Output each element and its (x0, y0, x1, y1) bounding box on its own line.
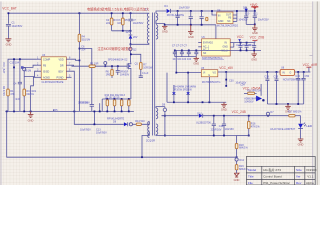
cap E11 (253, 11, 259, 24)
junction top rail x130.5 (130, 12, 132, 14)
svg-text:20V: 20V (133, 36, 138, 39)
svg-text:MC78L05ACDR2G: MC78L05ACDR2G (217, 25, 238, 28)
U5 out stub (218, 71, 226, 73)
wire R19 down (236, 170, 238, 173)
junction out rail x248.75 (248, 115, 250, 117)
sense resistor R10 (106, 100, 109, 112)
svg-text:0R75/1%: 0R75/1% (78, 101, 89, 104)
svg-text:VCC_ZXB: VCC_ZXB (250, 35, 265, 39)
main gnd bus (5, 110, 134, 112)
svg-text:R14 510: R14 510 (135, 120, 145, 123)
svg-text:O: O (289, 71, 291, 74)
wire R18 to rail (236, 149, 238, 158)
transformer primary winding (147, 13, 149, 43)
svg-text:GND: GND (298, 143, 304, 147)
svg-text:GND: GND (162, 30, 168, 34)
U6 right stubs (230, 43, 234, 48)
wire bus to aux row x94.4 (93, 111, 95, 124)
mosfet Q1 (127, 62, 138, 69)
gate inline resistor R5b (89, 63, 99, 68)
ground below C1 (5, 39, 11, 42)
junction x164.9 y115.7 (164, 115, 166, 117)
junction rail x246.2 (245, 10, 247, 12)
sense resistor R11 (113, 100, 116, 112)
snubber resistor R2 (106, 13, 117, 31)
ground cap bank (194, 57, 200, 62)
resistor R19 (235, 165, 248, 171)
svg-text:GND: GND (218, 20, 224, 23)
svg-text:104: 104 (248, 44, 253, 47)
junction snubber bottom x122.8 (122, 30, 124, 32)
bottom return rail (165, 135, 237, 137)
svg-text:FB: FB (43, 64, 46, 67)
svg-text:VCC_x5V0A: VCC_x5V0A (243, 86, 262, 90)
cap col x303.7 (302, 72, 306, 104)
svg-text:CL6870GD078GPE: CL6870GD078GPE (42, 81, 64, 84)
svg-text:R2 47K5: R2 47K5 (2, 86, 5, 96)
svg-text:68K/1%: 68K/1% (239, 147, 249, 150)
wire sec low2 bottom pin (156, 134, 165, 137)
svg-text:0R/1%: 0R/1% (26, 93, 34, 96)
cap between rails x240.5 (239, 43, 243, 51)
sheet right margin (313, 0, 320, 185)
svg-text:10uF/50V: 10uF/50V (12, 25, 23, 28)
cap col x298.2 (296, 72, 300, 104)
regulator U6 (202, 39, 231, 56)
svg-text:电解换成0欧电阻,1.5左右,电解可以适当加大: 电解换成0欧电阻,1.5左右,电解可以适当加大 (87, 7, 150, 12)
svg-text:VO: VO (213, 71, 217, 74)
svg-text:GND: GND (6, 42, 12, 46)
wire circle to R19 (236, 161, 238, 165)
circle D9 (162, 103, 167, 135)
wire small x99.7 (99, 103, 101, 111)
svg-text:104/50V: 104/50V (244, 100, 254, 103)
cap C42 (219, 116, 234, 136)
wire aux bottom pin (142, 132, 149, 158)
sense resistor R12 (120, 100, 123, 112)
resistor R16 (247, 116, 260, 136)
svg-text:E11: E11 (253, 12, 258, 15)
svg-text:VCC_x5V: VCC_x5V (219, 66, 234, 70)
svg-text:2CQ/3R: 2CQ/3R (146, 139, 155, 142)
junction mid rail x201.6 (201, 24, 203, 26)
junction rail x190.75 (190, 10, 192, 12)
divider column top (236, 136, 238, 144)
diode D8 (124, 122, 128, 126)
svg-text:R21: R21 (32, 90, 37, 93)
return rail ext (237, 135, 249, 137)
diode small1 (172, 85, 175, 102)
svg-text:10uF/35V: 10uF/35V (179, 6, 190, 9)
U6 pin names (203, 41, 228, 54)
test point circle gate (104, 62, 107, 68)
ferrite U8 (280, 69, 295, 75)
wire BDY down to bus (72, 71, 75, 111)
svg-text:C19: C19 (274, 75, 279, 78)
ground below rail x254.2 (251, 50, 257, 57)
ground at tap (162, 26, 167, 29)
svg-text:104/16V: 104/16V (225, 128, 235, 131)
junction U4 out top rail (236, 10, 238, 12)
svg-text:0.1uF: 0.1uF (142, 72, 149, 75)
junction mid rail x190.75 (190, 24, 192, 26)
svg-text:VCC_dVR: VCC_dVR (303, 63, 318, 67)
wire sec low1 pin (156, 107, 165, 108)
wire gate rail (72, 65, 90, 67)
transformer sec winding low1 (156, 108, 158, 119)
wire startup branch x79.4 (78, 13, 80, 34)
secondary top rail (170, 10, 254, 12)
aux rect row wire (74, 111, 124, 124)
snubber resistor R3 (117, 13, 128, 31)
cap E8 (176, 6, 190, 24)
U6 part number underlined (202, 57, 224, 60)
diode small2 (186, 92, 189, 94)
U6 left stubs (198, 43, 201, 47)
capacitor C7 (128, 13, 143, 34)
junction gate x112 (111, 65, 113, 67)
svg-text:10uF/50V: 10uF/50V (133, 22, 144, 25)
resistor small x206.8 (206, 17, 208, 20)
U3 pin names (43, 58, 64, 79)
svg-text:C40: C40 (295, 75, 300, 78)
junction top rail at x8.4 (8, 12, 10, 14)
junction return x213.8 (213, 135, 215, 137)
U8 inner pins (282, 71, 291, 74)
bottom long rail (7, 111, 237, 157)
op-amp U3 box (41, 57, 66, 80)
svg-text:1R0: 1R0 (106, 74, 111, 77)
power tick x254.9 (252, 41, 257, 43)
junction return x248.75 (248, 135, 250, 137)
junction out rail x224 (223, 115, 225, 117)
wire COMP left (8, 59, 36, 89)
U3 left pin stubs (36, 59, 41, 77)
resistor horizontal op-amp (244, 89, 262, 94)
title block outer (246, 157, 315, 186)
svg-text:VCC_BAT: VCC_BAT (2, 62, 5, 74)
junctions lower rail (240, 50, 242, 52)
resistor left R1 (7, 89, 15, 111)
svg-text:3n9: 3n9 (15, 98, 20, 101)
diode small near U6 (237, 35, 244, 43)
svg-text:MC78M05CDTG: MC78M05CDTG (202, 81, 221, 84)
wire y115.7 left stub (162, 115, 165, 117)
svg-text:IN: IN (282, 71, 285, 74)
svg-text:VCC_24B: VCC_24B (232, 110, 246, 114)
gate capacitor (116, 66, 130, 76)
wire x176.25 down to bus2 (166, 73, 168, 103)
cap col x267.4 (265, 72, 269, 104)
svg-text:UA-D741FE-AR6P53T: UA-D741FE-AR6P53T (270, 128, 296, 131)
junctions on bus (6, 111, 8, 113)
junction rail x177.6 (177, 10, 179, 12)
svg-text:22uF/16V: 22uF/16V (211, 128, 222, 131)
svg-text:GND: GND (251, 57, 257, 61)
svg-text:GND: GND (193, 61, 199, 65)
svg-text:Alpha: Alpha (306, 181, 314, 185)
svg-text:SPD04N60S4-G2: SPD04N60S4-G2 (108, 58, 128, 61)
cap E10 (244, 11, 250, 24)
svg-text:C? C? C? C?: C? C? C? C? (172, 44, 187, 47)
svg-text:RFVKL642RTE: RFVKL642RTE (167, 14, 185, 17)
junction top rail x111.6 (111, 12, 113, 14)
resistor R14 (135, 120, 145, 126)
svg-text:R17 680/1%: R17 680/1% (288, 111, 303, 114)
junction rail x298.2 (297, 71, 299, 73)
svg-text:E10: E10 (245, 12, 250, 15)
wire y48.5 to cap column (79, 49, 91, 105)
wire to transformer primary bottom (131, 43, 150, 45)
svg-text:10uF/25V: 10uF/25V (258, 19, 269, 22)
svg-text:GND: GND (188, 35, 194, 39)
capacitor left small (13, 82, 22, 111)
wire cap bottoms (246, 23, 255, 25)
junction out rail x213.8 (213, 115, 215, 117)
top light strip (0, 0, 320, 1)
wire x14 drop (13, 59, 15, 111)
cap below rail x196.25 (194, 50, 198, 56)
junction bus x94.4 top (94, 111, 96, 113)
svg-text:VCC_BAT: VCC_BAT (2, 7, 17, 11)
secondary mid rail (165, 24, 216, 26)
transformer sec winding top (156, 13, 158, 20)
wire U4 in (212, 11, 217, 15)
wire VCC_BAT stem (7, 13, 9, 24)
svg-text:1R 1R 1R 1R: 1R 1R 1R 1R (105, 97, 120, 100)
junction bottom rail end (236, 156, 238, 158)
junction x79.4 on top rail (79, 12, 81, 14)
resistor left R9 (23, 77, 35, 113)
svg-text:NF: NF (203, 52, 207, 55)
rail right of U8 (295, 71, 311, 73)
ground below caps (252, 24, 258, 31)
zener D3 (129, 35, 138, 44)
svg-text:Model: Model (248, 168, 257, 172)
bus tick x53.4 (52, 110, 54, 112)
svg-text:V1930X: V1930X (306, 168, 317, 172)
svg-text:VDD: VDD (59, 58, 64, 61)
junction x212 top rail (211, 10, 213, 12)
circle comp aux (129, 123, 136, 126)
output rail after D10 (203, 115, 289, 117)
svg-text:104/50V: 104/50V (238, 19, 248, 22)
capacitor C1 (6, 22, 23, 39)
cap C8 (189, 11, 193, 25)
svg-text:22V: 22V (126, 31, 131, 34)
wire FB (24, 65, 36, 67)
sheet border right (312, 0, 314, 185)
junction top rail x122.8 (122, 12, 124, 14)
regulator U4 (217, 12, 233, 24)
wire top rail (8, 12, 148, 14)
sense resistor top rail (102, 98, 131, 100)
svg-text:C42: C42 (219, 125, 224, 128)
junction gate x117.75 (117, 65, 119, 67)
svg-text:NCV8705MTADJT: NCV8705MTADJT (283, 79, 304, 82)
svg-text:LED: LED (306, 124, 313, 128)
wire DR to gate rail (72, 65, 74, 66)
regulator U5 (201, 70, 218, 77)
5V rail to right (226, 71, 280, 73)
junction U5 out (225, 71, 227, 73)
svg-text:Rev: Rev (296, 181, 302, 185)
svg-text:104 104 104 104: 104 104 104 104 (172, 58, 191, 61)
circle comp divider (235, 158, 245, 162)
wire mid rail to U6 (215, 25, 217, 39)
svg-text:HG-贴片-KT2: HG-贴片-KT2 (263, 167, 281, 172)
svg-text:VCC: VCC (237, 35, 244, 39)
cap E12 (211, 116, 222, 136)
diode D6 (243, 7, 248, 11)
cap E9 (200, 11, 204, 25)
wire sec tap (156, 20, 165, 24)
power tick right (306, 67, 311, 72)
svg-text:104: 104 (81, 49, 86, 52)
svg-text:V1.1: V1.1 (307, 175, 314, 179)
wire IS/SD (24, 71, 36, 76)
junction x79.4 y60.3 (79, 60, 81, 62)
resistor R18 (235, 143, 248, 149)
net label square FB (21, 66, 24, 69)
ground right mid (285, 104, 291, 109)
svg-text:10uF/50V: 10uF/50V (80, 129, 91, 132)
power port +5V0 (250, 3, 258, 11)
svg-text:+5V0: +5V0 (250, 3, 258, 7)
U4 pin names (218, 13, 232, 22)
svg-text:IS/SD: IS/SD (43, 70, 50, 73)
junction rail x201.6 (201, 10, 203, 12)
wire sec top pin (156, 11, 166, 13)
ground below LED (298, 139, 304, 142)
svg-text:GND: GND (221, 108, 227, 112)
LED D11 (298, 116, 313, 129)
transformer T1 core (153, 13, 155, 136)
wire sense left drop (101, 99, 103, 111)
U3 pin numbers (37, 57, 71, 78)
svg-text:GND: GND (234, 178, 240, 182)
svg-text:P91_Power.SchDoc: P91_Power.SchDoc (263, 181, 290, 185)
svg-text:10uF/50V: 10uF/50V (96, 132, 107, 135)
svg-text:GND: GND (223, 45, 229, 48)
wire below R4 (78, 42, 80, 112)
svg-text:C30: C30 (229, 79, 234, 82)
cap col x276.5 (275, 72, 279, 104)
junction x79.4 y48.5 (79, 48, 81, 50)
title row2 (248, 175, 314, 179)
junction +5 rail x246.6 (246, 42, 248, 44)
junction tap (164, 24, 166, 26)
svg-text:R5 10R: R5 10R (90, 63, 99, 66)
svg-text:C34: C34 (240, 84, 245, 87)
U4 out stubs (233, 11, 237, 21)
junction rail x303.7 (303, 71, 305, 73)
svg-text:103: 103 (117, 22, 122, 25)
clamp column x140.8 (130, 53, 153, 77)
svg-text:注意MOS管脚位0欧散热: 注意MOS管脚位0欧散热 (98, 46, 133, 51)
junction +5 rail x240.5 (240, 42, 242, 44)
circle comp left (23, 68, 26, 77)
ground below cap C8 (188, 25, 194, 35)
wire x188.1 down (187, 73, 189, 103)
cap below rail x174.75 (173, 50, 177, 56)
junction x14 y67.4 (13, 67, 15, 69)
svg-text:Q1: Q1 (135, 62, 139, 65)
junction aux x94.4 (94, 123, 96, 125)
U5 pin names (203, 71, 216, 77)
ground on bus (28, 111, 34, 117)
op-amp triangle (256, 84, 264, 101)
junction bottom rail x142 (141, 156, 143, 158)
svg-text:COMP: COMP (43, 58, 51, 61)
bus2 (167, 101, 226, 103)
wire AGND (31, 77, 36, 111)
output rail y115.7 (162, 115, 199, 117)
junction rail x254.8 (254, 10, 256, 12)
svg-text:D12: D12 (239, 159, 244, 162)
svg-text:104/50V: 104/50V (120, 73, 130, 76)
junction x130.5 y44.3 (130, 43, 132, 45)
svg-text:3R3/1W 3R3/1W: 3R3/1W 3R3/1W (173, 89, 192, 92)
border zone tick (309, 55, 312, 57)
diode D4 (164, 5, 184, 17)
junction bottoms (254, 24, 256, 26)
junctions cap bank (174, 50, 176, 52)
svg-text:222: 222 (106, 22, 111, 25)
junction x164.9 y135.5 (164, 135, 166, 137)
wire LED down (300, 128, 302, 138)
svg-text:IN: IN (218, 14, 221, 17)
gnd wire caps right (267, 103, 303, 105)
transformer sec winding mid (156, 25, 158, 39)
resistor R17 inline (288, 111, 303, 117)
cap between rails x254.2 (252, 43, 256, 51)
svg-text:C18: C18 (264, 75, 269, 78)
cap bank rail lower (175, 49, 261, 51)
capacitor C at x91.8 (90, 105, 94, 112)
cap below rail x188.75 (187, 50, 191, 56)
svg-text:File: File (248, 181, 253, 185)
resistor R4 (78, 34, 81, 42)
wire gate rail2 (95, 65, 127, 67)
cap below rail x181.9 (180, 50, 184, 56)
junction return x224 (223, 135, 225, 137)
junction mid rail x177.6 (177, 24, 179, 26)
svg-text:AGND: AGND (43, 76, 50, 79)
junction gnd wire (276, 103, 278, 105)
svg-text:PGND: PGND (57, 76, 64, 79)
circle comp on rail (266, 111, 274, 115)
svg-text:C15 104: C15 104 (10, 61, 20, 64)
svg-text:Title: Title (248, 175, 254, 179)
U3 right pin stubs (66, 59, 71, 77)
title row3 (248, 181, 314, 185)
svg-text:GND: GND (28, 118, 34, 122)
svg-text:DR: DR (60, 64, 64, 67)
junction x176.25 y72.6 (175, 72, 177, 74)
title row1 (248, 167, 317, 172)
transformer sec winding low2 (156, 124, 158, 135)
junctions sense top (106, 98, 108, 100)
wire x226.2 down caps (225, 72, 227, 87)
svg-text:C50: C50 (305, 75, 310, 78)
wire VDD to x79.4 (72, 59, 80, 60)
U5 gnd pin (208, 77, 210, 102)
wire cap-bank rail left drop (175, 50, 177, 72)
svg-text:Ver: Ver (296, 175, 301, 179)
junction out rail x268 (267, 115, 269, 117)
svg-text:UL2B020T06: UL2B020T06 (196, 121, 211, 124)
